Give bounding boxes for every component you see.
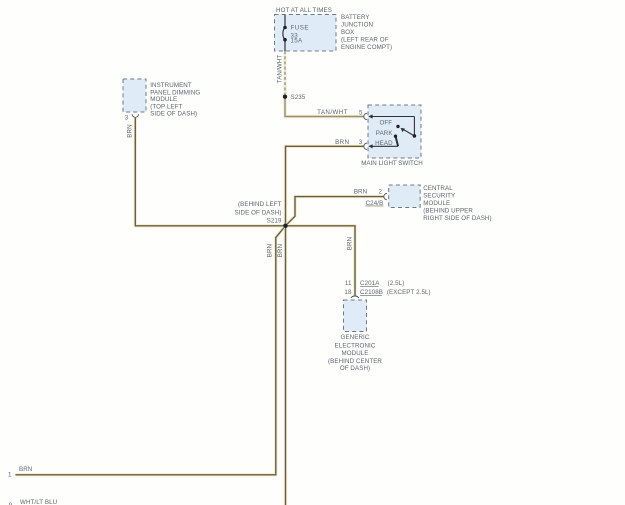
svg-text:S235: S235: [291, 94, 306, 101]
wire BRN from switch pin 3 to S219: [286, 146, 364, 226]
svg-text:HEAD: HEAD: [375, 140, 393, 147]
svg-text:BOX: BOX: [341, 29, 354, 36]
svg-text:18: 18: [344, 289, 352, 296]
svg-text:HOT AT ALL TIMES: HOT AT ALL TIMES: [276, 7, 332, 14]
wire TAN/WHT dashed from fuse box to S235: [283, 51, 286, 95]
svg-text:1: 1: [8, 472, 12, 479]
svg-text:BRN: BRN: [347, 237, 354, 250]
svg-text:MODULE: MODULE: [341, 350, 368, 357]
svg-text:(EXCEPT 2.5L): (EXCEPT 2.5L): [387, 289, 431, 296]
arrow into pin 3: [368, 144, 372, 148]
svg-text:11: 11: [345, 280, 352, 287]
svg-text:ENGINE COMPT): ENGINE COMPT): [341, 44, 392, 51]
battery junction box B1: [275, 15, 337, 52]
wiper dot: [394, 135, 397, 138]
svg-text:RIGHT SIDE OF DASH): RIGHT SIDE OF DASH): [423, 215, 491, 222]
connector at pin 5: [364, 113, 367, 119]
svg-text:3: 3: [359, 139, 363, 146]
svg-text:S219: S219: [267, 218, 282, 225]
splice S235: [283, 95, 287, 99]
wire BRN from S219 straight down off page: [284, 226, 287, 505]
wire BRN from S219 down-left to bottom left pin 1: [15, 226, 285, 475]
svg-text:(2.5L): (2.5L): [388, 280, 405, 287]
pivot dot: [413, 134, 417, 138]
svg-text:3: 3: [125, 114, 129, 121]
svg-text:OFF: OFF: [380, 120, 393, 127]
svg-text:INSTRUMENT: INSTRUMENT: [150, 82, 192, 89]
wire BRN from S219 to central security module pin 2: [286, 197, 384, 226]
arrow into pin 5: [368, 114, 372, 118]
svg-text:BRN: BRN: [277, 244, 284, 257]
svg-text:BATTERY: BATTERY: [341, 14, 370, 21]
svg-text:WHT/LT BLU: WHT/LT BLU: [20, 499, 57, 505]
svg-text:GENERIC: GENERIC: [341, 334, 370, 341]
instrument panel dimming module box: [123, 79, 146, 112]
splice S219: [283, 224, 288, 229]
svg-text:SIDE OF DASH): SIDE OF DASH): [234, 210, 281, 217]
svg-text:BRN: BRN: [267, 244, 274, 257]
svg-text:15A: 15A: [291, 38, 303, 45]
svg-text:TAN/WHT: TAN/WHT: [317, 109, 348, 116]
connector at dimming module pin 3: [132, 114, 138, 117]
svg-text:BRN: BRN: [335, 139, 349, 146]
switch internal circuit: [371, 117, 414, 147]
fuse F33 15A: [283, 15, 285, 51]
svg-text:BRN: BRN: [126, 124, 133, 137]
main light switch box: [368, 105, 421, 158]
svg-text:MODULE: MODULE: [423, 200, 450, 207]
svg-text:BRN: BRN: [19, 466, 32, 473]
svg-text:(BEHIND UPPER: (BEHIND UPPER: [423, 208, 473, 215]
arrow toward OFF contact: [401, 128, 405, 132]
svg-text:(BEHIND CENTER: (BEHIND CENTER: [328, 358, 382, 365]
svg-text:ELECTRONIC: ELECTRONIC: [335, 343, 376, 350]
connector at GEM: [351, 296, 359, 298]
svg-text:SECURITY: SECURITY: [423, 193, 455, 200]
generic electronic module box: [344, 300, 367, 332]
svg-text:BRN: BRN: [354, 188, 367, 195]
wire BRN from S219 to generic electronic module: [286, 226, 356, 296]
wire TAN/WHT from S235 to main light switch pin 5: [285, 97, 364, 117]
svg-text:FUSE: FUSE: [291, 25, 310, 32]
svg-text:TAN/WHT: TAN/WHT: [276, 55, 283, 84]
svg-text:OF DASH): OF DASH): [340, 365, 370, 372]
svg-text:(LEFT REAR OF: (LEFT REAR OF: [341, 37, 389, 44]
svg-text:SIDE OF DASH): SIDE OF DASH): [150, 110, 197, 117]
svg-text:5: 5: [359, 110, 363, 117]
svg-text:JUNCTION: JUNCTION: [341, 22, 373, 29]
central security module box: [389, 185, 420, 208]
svg-text:MAIN LIGHT SWITCH: MAIN LIGHT SWITCH: [361, 160, 422, 167]
contact dot OFF: [396, 125, 399, 128]
connector C24/B: [384, 193, 387, 199]
svg-text:2: 2: [378, 188, 382, 195]
svg-text:MODULE: MODULE: [150, 96, 177, 103]
wire BRN from dimming module to S219: [135, 117, 285, 225]
svg-text:PARK: PARK: [376, 130, 394, 137]
svg-text:(BEHIND LEFT: (BEHIND LEFT: [238, 201, 282, 208]
connector at pin 3: [364, 143, 367, 149]
svg-text:CENTRAL: CENTRAL: [423, 185, 453, 192]
